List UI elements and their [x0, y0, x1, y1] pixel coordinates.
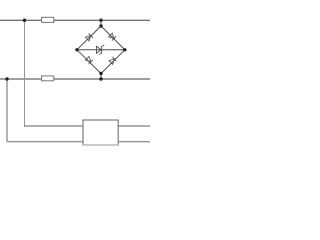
wire top rail [0, 19, 150, 21]
wire horizontal to box lower input [7, 141, 84, 143]
node bridge top vertex [99, 24, 102, 27]
wire vertical drop from second rail junction [6, 79, 8, 142]
node junction dot second rail left [5, 77, 8, 80]
box U1 bottom edge [83, 144, 119, 146]
wire middle branch [77, 49, 125, 51]
node junction dot top rail bridge [99, 19, 102, 22]
node bridge bottom vertex [99, 72, 102, 75]
box U1 left edge [82, 120, 84, 146]
node bridge left vertex [75, 48, 78, 51]
diode D4 bottom-right [109, 57, 117, 65]
node junction dot second rail bridge [99, 77, 102, 80]
resistor R2 [42, 76, 54, 81]
zener diode D5 middle [96, 45, 104, 54]
diode D2 top-right [108, 33, 116, 41]
wire bridge diamond [77, 26, 125, 74]
box U1 right edge [117, 120, 119, 146]
node junction dot top rail left [23, 19, 26, 22]
diode D3 bottom-left [85, 56, 93, 64]
wire second rail [0, 78, 150, 80]
box U1 top edge [83, 119, 119, 121]
wire vertical drop from top rail junction [24, 20, 26, 126]
wire stub bottom vertex to second rail [100, 74, 102, 80]
wire box output lower [118, 141, 150, 143]
wire stub top vertex to top rail [100, 20, 102, 26]
resistor R1 [42, 17, 54, 22]
wire box output upper [118, 125, 150, 127]
node bridge right vertex [123, 48, 126, 51]
wire horizontal to box upper input [24, 125, 83, 127]
diode D1 top-left [85, 33, 93, 41]
